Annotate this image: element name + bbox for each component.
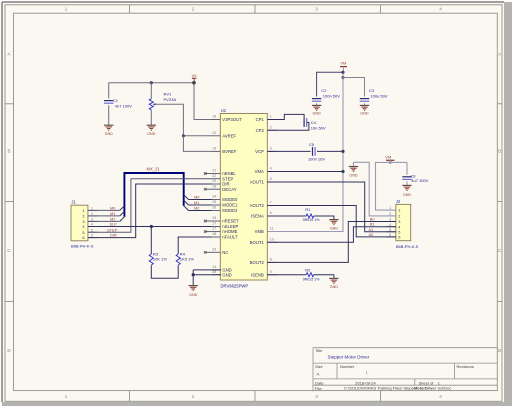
wire C6 to ground — [406, 182, 408, 186]
svg-text:20: 20 — [212, 179, 216, 183]
svg-text:V3P3OUT: V3P3OUT — [222, 117, 242, 122]
svg-text:6: 6 — [82, 235, 84, 240]
wire C2 to ground — [316, 103, 318, 105]
bus entry M1 right — [184, 200, 189, 205]
wire VM to C3 — [343, 78, 365, 97]
U1 pin 21 nENBL no-connect X — [204, 172, 207, 175]
svg-text:5: 5 — [82, 230, 84, 235]
title block grid lines — [313, 348, 497, 391]
bus entry M2 left — [120, 217, 125, 222]
wire C1 to ground — [108, 105, 110, 125]
svg-text:6: 6 — [91, 234, 93, 238]
bus entry M0 right — [184, 195, 189, 200]
svg-text:C:\SOLIDWORKS Training Files\: C:\SOLIDWORKS Training Files\ SteppMotor… — [344, 386, 451, 391]
wire to BVREF pin 13 — [183, 136, 211, 152]
J1 pin names 1-6 — [82, 208, 85, 240]
svg-text:C1: C1 — [113, 98, 119, 103]
U1 pin 16 nRESET no-connect X — [204, 220, 207, 223]
svg-text:1K5 1%: 1K5 1% — [180, 257, 194, 262]
wire VM rail vertical to VMB pin 11 — [342, 67, 344, 73]
junction VCP/VM — [341, 150, 344, 153]
svg-text:4u7 100V: 4u7 100V — [411, 178, 428, 183]
U1 right pin stubs — [267, 120, 277, 275]
connector J1 body — [71, 205, 88, 241]
svg-text:C5: C5 — [309, 142, 315, 147]
wire M2 to MODE2 pin 26 — [189, 210, 212, 212]
svg-text:4: 4 — [439, 7, 442, 12]
svg-text:10n 50V: 10n 50V — [311, 126, 326, 131]
svg-text:R2: R2 — [305, 267, 311, 272]
svg-text:2: 2 — [192, 7, 195, 12]
junction AVREF/BVREF — [182, 134, 185, 137]
wire R2 to ground — [314, 275, 334, 279]
RV1 wiper arrow — [153, 103, 156, 105]
svg-text:1: 1 — [398, 208, 400, 213]
junction V3/RV1 — [150, 81, 153, 84]
svg-text:14: 14 — [212, 265, 216, 269]
svg-text:1: 1 — [270, 115, 272, 119]
svg-text:File:: File: — [315, 386, 323, 391]
wire GND rail to J2 pin 2 — [354, 162, 396, 216]
svg-text:GND: GND — [330, 226, 339, 230]
svg-text:6: 6 — [270, 211, 272, 215]
wire VM to C2 — [317, 72, 343, 96]
svg-text:8: 8 — [270, 258, 272, 262]
capacitor C5 — [313, 147, 316, 156]
svg-text:GND: GND — [189, 293, 198, 297]
junction VM right — [389, 161, 392, 164]
U1 pin numbers — [212, 115, 273, 274]
bus MX_21 — [124, 173, 183, 217]
ground below R1 — [329, 220, 338, 225]
wire VMA pin 4 to VM rail — [268, 171, 344, 173]
svg-text:C4: C4 — [311, 120, 317, 125]
svg-text:1: 1 — [65, 7, 68, 12]
svg-text:10: 10 — [270, 237, 274, 241]
svg-text:3: 3 — [315, 7, 318, 12]
bus entry M0 left — [120, 206, 125, 211]
wire RV1 bottom to ground — [150, 110, 152, 125]
ground below R2 — [329, 278, 338, 283]
U1 pin 23 NC no-connect stub — [205, 251, 211, 253]
svg-text:MODE0: MODE0 — [222, 197, 238, 202]
wire AOUT2 pin 7 to J2 pin 6 — [267, 206, 396, 237]
svg-text:Number: Number — [340, 364, 355, 369]
svg-text:19: 19 — [212, 184, 216, 188]
ground below C1 — [104, 125, 113, 130]
wire ISENA pin 6 to R1 — [268, 215, 307, 217]
wire ISENB pin 9 to R2 — [268, 274, 307, 276]
svg-text:2: 2 — [398, 214, 400, 219]
svg-text:J1: J1 — [71, 199, 76, 204]
U1 pin 16 nRESET no-connect stub — [205, 220, 211, 222]
junction SLP/R3 — [150, 225, 153, 228]
junction VMA/VM — [341, 170, 344, 173]
svg-text:9: 9 — [270, 270, 272, 274]
resistor R4 — [176, 254, 180, 265]
ground below C3 — [360, 105, 369, 110]
wire VM rail vertical — [268, 72, 344, 231]
power port VM top — [340, 66, 347, 68]
svg-text:SLP: SLP — [110, 222, 118, 227]
capacitor C4 — [304, 118, 307, 127]
wire GND junction drop — [192, 270, 194, 286]
svg-text:7: 7 — [270, 201, 272, 205]
wire C3 to ground — [364, 103, 366, 105]
wire GND pin 14 — [193, 269, 221, 271]
svg-text:16: 16 — [212, 216, 216, 220]
svg-text:B: B — [498, 149, 501, 154]
wire V3 rail horizontal — [109, 82, 194, 84]
svg-text:GND: GND — [330, 285, 339, 289]
ground below C2 — [312, 105, 321, 110]
svg-text:6: 6 — [398, 235, 400, 240]
wire GND pin 28 — [193, 274, 221, 276]
svg-text:17: 17 — [212, 222, 216, 226]
wire VM to C6 — [406, 162, 408, 174]
capacitor C2 — [312, 99, 321, 102]
wire C1 top — [108, 83, 110, 99]
svg-text:2: 2 — [192, 394, 195, 399]
junction U1 GND — [192, 273, 195, 276]
bus entry M1 left — [120, 211, 125, 216]
svg-text:M0: M0 — [110, 206, 116, 211]
potentiometer RV1 body — [149, 99, 153, 110]
svg-text:Revisions: Revisions — [457, 364, 474, 369]
svg-text:AOUT1: AOUT1 — [250, 180, 265, 185]
svg-text:GND: GND — [147, 132, 156, 136]
wire M2 from J1 pin3 — [88, 220, 120, 222]
svg-text:27: 27 — [212, 227, 216, 231]
U1 pin 27 nHOME no-connect X — [204, 230, 207, 233]
svg-text:GND: GND — [105, 132, 114, 136]
wire VM right rail to J2 pin 1 — [376, 162, 408, 210]
svg-text:4n7 100V: 4n7 100V — [115, 104, 132, 109]
wire CP2 pin 2 to C4 — [268, 123, 309, 131]
U1 pin names — [222, 117, 264, 277]
svg-text:VCP: VCP — [255, 149, 264, 154]
J1 pin stubs — [88, 210, 98, 237]
svg-text:V3: V3 — [192, 73, 198, 78]
svg-text:1: 1 — [82, 208, 84, 213]
svg-text:M1: M1 — [110, 211, 115, 216]
svg-text:nHOME: nHOME — [222, 229, 237, 234]
wire R4 top to nFAULT pin 18 — [178, 237, 211, 254]
svg-text:MX_21: MX_21 — [147, 167, 161, 172]
svg-text:5: 5 — [389, 228, 391, 232]
svg-text:10K 1%: 10K 1% — [153, 257, 167, 262]
svg-text:BOUT1: BOUT1 — [250, 240, 265, 245]
svg-text:AVREF: AVREF — [222, 133, 236, 138]
svg-text:GND: GND — [403, 193, 412, 197]
svg-text:PVZ3A: PVZ3A — [164, 97, 177, 102]
svg-text:5: 5 — [270, 177, 272, 181]
ground below U1 — [189, 286, 198, 291]
wire VCP pin 3 to C5 — [268, 150, 311, 152]
svg-text:ISENB: ISENB — [251, 272, 264, 277]
svg-text:J2: J2 — [396, 199, 401, 204]
canvas frame left+top lines — [1, 2, 3, 402]
wire R1 to ground — [314, 216, 334, 219]
svg-text:VM: VM — [340, 61, 346, 66]
svg-text:21: 21 — [212, 169, 216, 173]
svg-text:MODE1: MODE1 — [222, 203, 238, 208]
ground below RV1 — [147, 125, 156, 130]
wire M1 to MODE1 pin 25 — [189, 204, 212, 206]
resistor R1 — [306, 214, 314, 218]
wire AOUT1 pin 5 to J2 pin 5 — [267, 182, 396, 232]
svg-text:Title: Title — [315, 348, 323, 353]
svg-text:22: 22 — [212, 174, 216, 178]
svg-text:1: 1 — [65, 394, 68, 399]
ground at J2 rail — [349, 167, 358, 172]
svg-text:nRESET: nRESET — [222, 219, 239, 224]
power port VM right — [386, 159, 394, 161]
connector J2 body — [396, 204, 411, 240]
svg-text:Stepper Motor Driver: Stepper Motor Driver — [328, 355, 370, 360]
svg-text:2: 2 — [270, 125, 272, 129]
svg-text:100u 50V: 100u 50V — [370, 93, 387, 98]
wire M1 from J1 pin2 — [88, 215, 120, 217]
capacitor C6 — [402, 177, 411, 180]
junction VM/C3 — [341, 76, 344, 79]
svg-text:100n 50V: 100n 50V — [323, 93, 340, 98]
wire DIR J1 pin6 to DIR pin 20 — [88, 184, 212, 238]
capacitor C1 — [104, 101, 113, 104]
svg-text:BVREF: BVREF — [222, 149, 237, 154]
svg-text:GND: GND — [349, 174, 358, 178]
svg-text:ISENA: ISENA — [251, 214, 264, 219]
U1 pin 23 NC no-connect X — [204, 251, 207, 254]
svg-text:2: 2 — [82, 214, 84, 219]
svg-text:VM: VM — [385, 155, 391, 160]
wire SLP J1 pin4 to nSLEEP pin 17 — [88, 226, 212, 228]
svg-text:0R015 1%: 0R015 1% — [303, 277, 321, 281]
svg-text:R1: R1 — [305, 207, 311, 212]
wire M0 from J1 pin1 — [88, 209, 120, 211]
svg-text:DIR: DIR — [110, 233, 117, 238]
resistor R3 — [149, 254, 153, 265]
wire RV1 top — [150, 83, 152, 99]
junction VM/C2 — [341, 71, 344, 74]
canvas shadow right+bottom — [504, 2, 512, 406]
svg-text:0R015 1%: 0R015 1% — [303, 218, 321, 222]
svg-text:CP2: CP2 — [256, 128, 265, 133]
svg-text:2018-09-24: 2018-09-24 — [355, 380, 376, 385]
resistor R2 — [306, 273, 314, 277]
svg-text:13: 13 — [212, 147, 216, 151]
U1 pin 19 DECAY no-connect X — [204, 188, 207, 191]
ground below C6 — [402, 185, 411, 190]
svg-text:25: 25 — [212, 200, 216, 204]
svg-text:100n 16V: 100n 16V — [308, 156, 325, 161]
wire BOUT1 pin 10 to J2 pin 4 — [267, 227, 396, 243]
svg-text:Size: Size — [315, 364, 324, 369]
op-amp U1 DRV8825PWP body — [220, 114, 267, 281]
svg-text:15: 15 — [212, 115, 216, 119]
svg-text:M2: M2 — [194, 206, 199, 211]
J1 pin numbers — [91, 207, 93, 238]
svg-text:STEP: STEP — [222, 176, 233, 181]
svg-text:4: 4 — [439, 394, 442, 399]
bus entry M2 right — [184, 206, 189, 211]
svg-text:STEP: STEP — [107, 227, 118, 232]
svg-text:B6B-PH-K-S: B6B-PH-K-S — [396, 244, 419, 249]
svg-text:M0: M0 — [194, 195, 200, 200]
svg-text:NC: NC — [222, 250, 228, 255]
U1 pin 27 nHOME no-connect stub — [205, 231, 211, 233]
svg-text:DECAY: DECAY — [222, 187, 236, 192]
U1 pin 21 nENBL no-connect stub — [205, 173, 211, 175]
wire BOUT2 pin 8 to J2 pin 3 — [267, 222, 396, 263]
wire CP1 pin 1 to C4 — [268, 114, 305, 119]
svg-text:Date: Date — [315, 380, 324, 385]
power port V3 — [192, 78, 196, 82]
svg-text:3: 3 — [315, 394, 318, 399]
capacitor C3 — [360, 99, 369, 102]
wire M0 to MODE0 pin 24 — [189, 199, 212, 201]
svg-text:MODE2: MODE2 — [222, 208, 238, 213]
svg-text:A: A — [317, 372, 320, 377]
svg-text:GND: GND — [222, 272, 231, 277]
svg-text:Sheet of: Sheet of — [419, 380, 435, 385]
svg-text:18: 18 — [212, 232, 216, 236]
svg-text:VMB: VMB — [255, 229, 264, 234]
svg-text:DRV8825PWP: DRV8825PWP — [221, 284, 249, 289]
svg-text:11: 11 — [270, 227, 274, 231]
svg-text:GND: GND — [312, 111, 321, 115]
svg-text:RV1: RV1 — [164, 91, 172, 96]
svg-text:A0: A0 — [369, 232, 375, 237]
svg-text:23: 23 — [212, 247, 216, 251]
junction V3 power — [192, 81, 196, 85]
svg-text:U1: U1 — [221, 108, 227, 113]
svg-text:12: 12 — [212, 131, 216, 135]
J2 pin numbers — [389, 206, 391, 237]
svg-text:GND: GND — [360, 111, 369, 115]
svg-text:24: 24 — [212, 195, 216, 199]
svg-text:B6B-PH-K-S: B6B-PH-K-S — [71, 244, 94, 249]
wire RV1 wiper to AVREF pin 12 — [156, 104, 212, 136]
svg-text:CP1: CP1 — [256, 117, 265, 122]
wire R3/R4 bottom loop — [151, 265, 178, 278]
svg-text:VMA: VMA — [255, 169, 264, 174]
wire V3 to V3P3OUT pin 15 — [194, 83, 212, 120]
wire VM right stem — [389, 160, 391, 162]
svg-text:nFAULT: nFAULT — [222, 235, 238, 240]
svg-text:BOUT2: BOUT2 — [250, 260, 265, 265]
svg-text:26: 26 — [212, 206, 216, 210]
wire R3 top — [150, 227, 152, 255]
U1 left pin stubs — [212, 120, 221, 275]
svg-text:B: B — [7, 149, 10, 154]
svg-text:AOUT2: AOUT2 — [250, 203, 265, 208]
svg-text:M1: M1 — [194, 200, 199, 205]
wire GND rail stem — [353, 162, 355, 166]
wire C5 to VM rail — [317, 150, 343, 152]
J2 pin names 1-6 — [398, 208, 401, 240]
J2 pin stubs — [386, 210, 396, 237]
svg-text:3: 3 — [270, 147, 272, 151]
wire STEP J1 pin5 to STEP pin 22 — [88, 179, 212, 233]
svg-text:4: 4 — [270, 167, 272, 171]
U1 pin 19 DECAY no-connect stub — [205, 188, 211, 190]
